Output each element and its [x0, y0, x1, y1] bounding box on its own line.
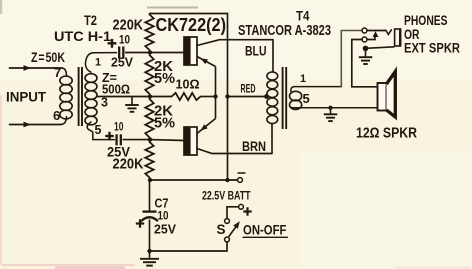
- node supply bottom: [148, 178, 152, 182]
- capacitor C7 bottom plate (curved): [142, 217, 157, 220]
- node RED at coil: [264, 94, 269, 99]
- resistor 2K 5% lower: [145, 99, 153, 138]
- svg-text:S: S: [217, 222, 226, 237]
- svg-text:25V: 25V: [154, 222, 176, 237]
- wire node to 10ohm: [150, 96, 172, 98]
- scan pink artifacts left edge: [0, 95, 2, 265]
- svg-text:10: 10: [158, 209, 169, 223]
- switch top circle: [225, 219, 230, 224]
- resistor 220K top: [145, 15, 153, 51]
- battery minus terminal circle: [238, 178, 243, 183]
- battery plus terminal circle: [239, 204, 244, 209]
- transformer T2 primary winding: [60, 76, 72, 85]
- node rail to battery line: [225, 178, 229, 182]
- switch blade: [229, 225, 238, 238]
- wire BLU down to T4 primary top: [272, 40, 274, 73]
- svg-text:6: 6: [53, 108, 60, 123]
- capacitor 10uF bottom (plates): [115, 134, 117, 145]
- svg-text:BRN: BRN: [242, 139, 266, 154]
- svg-text:EXT SPKR: EXT SPKR: [404, 41, 460, 56]
- label + top cap: [108, 42, 117, 44]
- svg-text:T2: T2: [84, 12, 97, 28]
- transistor Q2 CK722 body: [184, 127, 197, 155]
- svg-text:UTC H-1: UTC H-1: [54, 29, 112, 44]
- Q1 emitter arrow (PNP): [199, 56, 208, 64]
- transistor Q1 CK722 body: [184, 37, 197, 65]
- ground (jack sleeve): [365, 51, 367, 57]
- wire T2 center tap to ground node: [97, 96, 150, 98]
- wire C7 top: [149, 180, 151, 211]
- svg-text:Z = 50K: Z = 50K: [31, 50, 65, 65]
- input top arrowhead: [24, 65, 32, 71]
- wire base Q1: [150, 52, 184, 54]
- C7 plus sign: [136, 222, 144, 224]
- label + bottom cap: [105, 135, 113, 137]
- wire jack tip from T4 pin1: [341, 31, 362, 87]
- svg-text:PHONES: PHONES: [404, 13, 448, 28]
- scan pink artifacts bottom edge: [2, 264, 135, 266]
- wire sleeve to plug body: [368, 47, 395, 48]
- node mid (2K junction): [148, 94, 152, 98]
- transformer T4 secondary winding: [290, 91, 302, 100]
- battery plus sign: [243, 210, 251, 212]
- battery minus polarity bar: [238, 172, 246, 174]
- svg-text:22.5V BATT: 22.5V BATT: [202, 189, 251, 203]
- speaker cone mouth edge: [395, 72, 397, 118]
- ground (output): [330, 108, 332, 114]
- transistor Q2 emitter lead: [197, 119, 216, 134]
- transformer T2 secondary winding: [85, 74, 97, 83]
- wire cap top to base node: [125, 52, 150, 54]
- resistor 10 ohm: [172, 93, 201, 100]
- svg-text:10Ω: 10Ω: [176, 77, 200, 92]
- svg-text:25V: 25V: [111, 55, 133, 70]
- phone plug body: [395, 29, 401, 46]
- wire switch to ground line: [150, 242, 227, 251]
- transformer T2 core: [78, 67, 80, 126]
- ON-OFF underline: [243, 236, 289, 238]
- svg-text:INPUT: INPUT: [6, 90, 47, 105]
- node emitter rail: [213, 94, 217, 98]
- transistor Q1 emitter lead: [197, 57, 216, 67]
- wire RED center tap: [228, 96, 267, 98]
- transistor Q2 collector lead to BRN: [197, 149, 272, 154]
- scan smudge top: [147, 7, 198, 9]
- transformer T4 primary winding: [267, 72, 278, 80]
- svg-text:5: 5: [303, 91, 310, 106]
- wire input bottom to T2 primary: [61, 117, 67, 125]
- scan smudge top-left corner: [0, 0, 2, 14]
- node RED tap on rail: [225, 94, 229, 98]
- svg-text:1: 1: [95, 57, 101, 69]
- svg-text:5%: 5%: [154, 116, 175, 132]
- wire battery minus line: [150, 179, 237, 181]
- svg-text:10: 10: [114, 122, 124, 134]
- capacitor C7 top plate: [143, 210, 157, 212]
- svg-text:500Ω: 500Ω: [102, 83, 130, 97]
- resistor 220K bottom: [145, 142, 153, 178]
- Q2 emitter arrow (PNP): [199, 124, 208, 133]
- svg-text:220K: 220K: [113, 156, 144, 173]
- wire input bottom lead: [10, 124, 62, 126]
- wire battery plus to switch: [227, 207, 239, 219]
- transistor Q1 collector lead to BLU: [197, 40, 273, 46]
- svg-text:ON-OFF: ON-OFF: [243, 223, 287, 238]
- wire base Q2: [150, 139, 184, 142]
- wire jack to speaker top: [352, 40, 378, 87]
- svg-text:BLU: BLU: [245, 44, 267, 59]
- wire emitter rail vertical: [215, 67, 217, 119]
- jack contact arrow: [373, 31, 379, 37]
- wire T2 pin1 to C coupling top: [85, 53, 116, 73]
- capacitor 10uF top (plates): [118, 47, 120, 59]
- svg-text:5: 5: [95, 123, 102, 137]
- node base1: [148, 50, 152, 54]
- svg-text:3: 3: [101, 96, 108, 110]
- switch blade arrowhead: [233, 220, 242, 229]
- node base2: [148, 137, 152, 141]
- ground (C7 / main): [149, 251, 151, 258]
- phone plug tip V: [386, 30, 392, 35]
- jack NC contact post: [367, 37, 375, 40]
- svg-text:CK722(2): CK722(2): [156, 14, 227, 35]
- wire input top to T2 primary: [62, 68, 67, 76]
- wire 10ohm to emitter rail: [201, 96, 216, 98]
- wire T4 sec pin1 out: [291, 87, 341, 93]
- svg-text:RED: RED: [241, 82, 256, 96]
- jack tip spring wire: [367, 30, 386, 32]
- node C7 ground: [147, 249, 151, 253]
- svg-text:1: 1: [300, 73, 306, 85]
- wire input top lead: [10, 67, 63, 69]
- transformer T4 core: [282, 67, 284, 129]
- svg-text:5%: 5%: [154, 71, 175, 87]
- wire T2 pin5 down: [87, 122, 114, 140]
- jack sleeve node: [363, 46, 369, 52]
- wire T4 sec pin5 to ground/speaker: [292, 107, 378, 109]
- wire BRN up to T4 primary bottom: [271, 123, 273, 154]
- svg-text:12Ω SPKR: 12Ω SPKR: [356, 126, 417, 142]
- wire top supply rail: [150, 14, 228, 181]
- ground (T2 center tap): [131, 97, 133, 105]
- node speaker gnd: [328, 106, 332, 110]
- switch bottom circle: [225, 237, 230, 242]
- svg-text:220K: 220K: [113, 17, 144, 34]
- resistor 2K 5% upper: [145, 55, 153, 94]
- svg-text:STANCOR A-3823: STANCOR A-3823: [238, 23, 331, 39]
- input bottom arrowhead: [24, 122, 32, 128]
- speaker driver: [378, 83, 387, 111]
- svg-text:10: 10: [119, 35, 130, 47]
- jack terminal circle 2: [362, 37, 367, 42]
- svg-text:T4: T4: [296, 9, 310, 24]
- svg-text:7: 7: [54, 65, 61, 80]
- speaker cone: [387, 72, 396, 118]
- jack terminal circle 1: [362, 28, 367, 33]
- wire C7 to ground node: [149, 220, 151, 252]
- wire cap bottom to base node 2: [123, 139, 151, 141]
